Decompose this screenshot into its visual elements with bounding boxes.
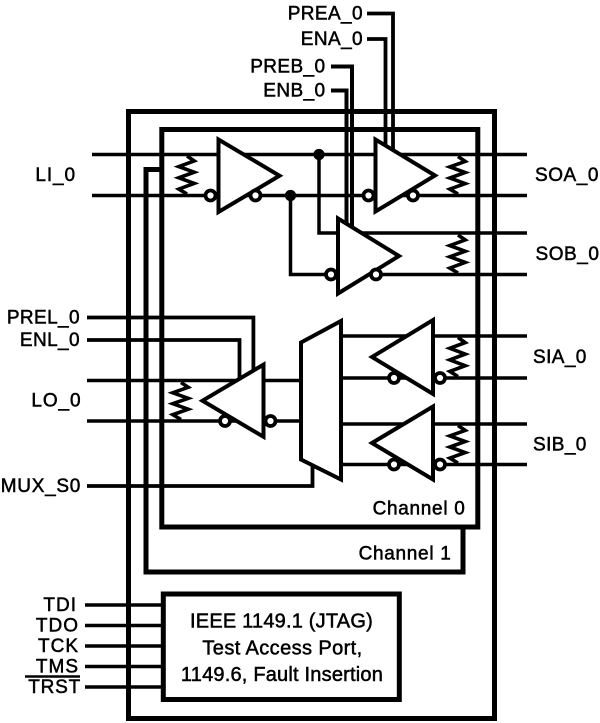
svg-text:1149.6, Fault Insertion: 1149.6, Fault Insertion <box>181 664 383 686</box>
svg-text:PREL_0: PREL_0 <box>7 308 80 329</box>
svg-text:MUX_S0: MUX_S0 <box>1 476 81 497</box>
svg-text:ENB_0: ENB_0 <box>263 81 325 102</box>
svg-text:LO_0: LO_0 <box>31 391 81 412</box>
svg-text:ENA_0: ENA_0 <box>301 29 363 50</box>
svg-text:TMS: TMS <box>36 657 79 678</box>
svg-text:SOA_0: SOA_0 <box>535 165 599 186</box>
svg-text:SIB_0: SIB_0 <box>533 435 587 456</box>
svg-text:TDI: TDI <box>43 595 77 616</box>
svg-text:SIA_0: SIA_0 <box>533 347 587 368</box>
svg-text:IEEE 1149.1 (JTAG): IEEE 1149.1 (JTAG) <box>190 611 373 633</box>
svg-text:PREA_0: PREA_0 <box>288 4 363 25</box>
svg-text:TDO: TDO <box>36 616 79 637</box>
svg-text:TRST: TRST <box>28 677 81 698</box>
svg-text:Channel 1: Channel 1 <box>359 544 452 565</box>
svg-text:LI_0: LI_0 <box>35 165 76 186</box>
svg-text:Test Access Port,: Test Access Port, <box>202 638 362 660</box>
svg-text:SOB_0: SOB_0 <box>536 244 600 265</box>
svg-text:PREB_0: PREB_0 <box>250 57 325 78</box>
svg-text:Channel 0: Channel 0 <box>373 499 466 520</box>
svg-text:TCK: TCK <box>38 636 79 657</box>
svg-text:ENL_0: ENL_0 <box>20 330 80 351</box>
